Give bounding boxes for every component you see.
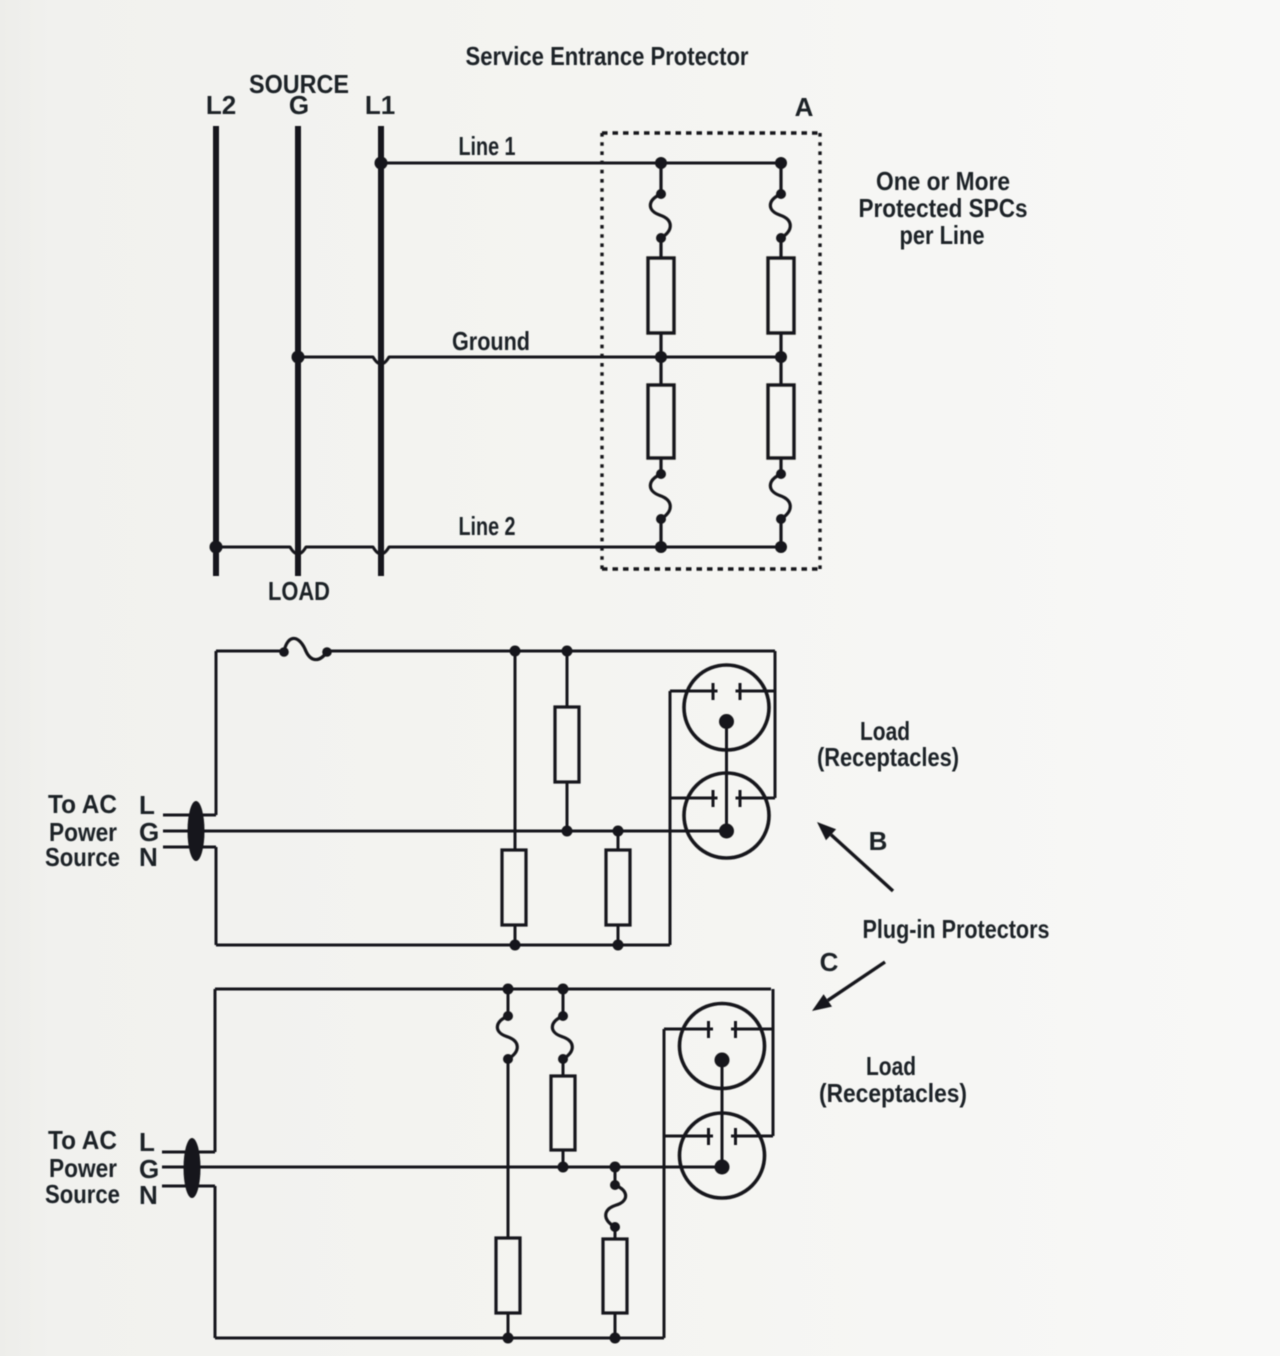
svg-text:per Line: per Line [900, 220, 985, 250]
svg-text:A: A [795, 92, 814, 122]
svg-text:Load: Load [866, 1051, 916, 1081]
svg-text:N: N [139, 1180, 158, 1210]
svg-text:L1: L1 [365, 90, 395, 120]
svg-text:B: B [869, 826, 888, 856]
svg-text:L2: L2 [206, 90, 236, 120]
svg-text:One or More: One or More [876, 166, 1010, 196]
svg-text:Ground: Ground [452, 326, 530, 356]
svg-text:L: L [139, 1127, 155, 1157]
svg-text:To AC: To AC [48, 789, 117, 819]
svg-text:G: G [289, 90, 309, 120]
svg-text:(Receptacles): (Receptacles) [819, 1078, 967, 1108]
svg-text:C: C [820, 947, 839, 977]
svg-text:Service Entrance Protector: Service Entrance Protector [466, 41, 749, 71]
svg-text:Line 2: Line 2 [459, 511, 516, 541]
svg-text:N: N [139, 842, 158, 872]
svg-text:LOAD: LOAD [268, 576, 330, 606]
svg-text:Source: Source [45, 1179, 120, 1209]
svg-text:Line 1: Line 1 [459, 131, 516, 161]
svg-text:L: L [139, 790, 155, 820]
svg-text:Source: Source [45, 842, 120, 872]
svg-text:Plug-in Protectors: Plug-in Protectors [863, 914, 1050, 944]
svg-text:(Receptacles): (Receptacles) [817, 742, 959, 772]
svg-text:To AC: To AC [48, 1125, 117, 1155]
svg-text:Protected SPCs: Protected SPCs [859, 193, 1028, 223]
